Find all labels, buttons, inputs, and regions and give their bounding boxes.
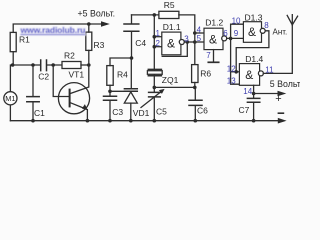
resistor R6	[192, 65, 198, 83]
node emitter rail	[86, 119, 90, 123]
resistor R3	[86, 32, 92, 50]
capacitor C2	[41, 60, 47, 71]
node C1 bottom rail	[31, 119, 35, 123]
svg-text:&: &	[167, 36, 175, 50]
svg-text:C4: C4	[135, 38, 146, 48]
svg-text:11: 11	[265, 65, 274, 74]
wire pin11 to antenna	[263, 25, 292, 74]
wire R3 bottom	[88, 50, 90, 65]
pin12 stub	[231, 71, 240, 73]
resistor R1	[10, 32, 16, 51]
svg-text:R1: R1	[19, 35, 30, 45]
svg-text:5: 5	[197, 34, 202, 43]
node top rail / R3 junction	[87, 22, 91, 26]
wire pin8 wrap to pin12	[236, 31, 269, 72]
wire pin3	[184, 41, 195, 43]
svg-text:5 Вольт.: 5 Вольт.	[270, 79, 300, 89]
wire R4 top	[110, 58, 132, 66]
svg-text:D1.3: D1.3	[245, 13, 263, 23]
pin7 ground	[213, 50, 215, 62]
microphone M1	[9, 65, 11, 121]
svg-text:6: 6	[223, 29, 228, 38]
capacitor C7	[247, 98, 259, 102]
capacitor C3	[109, 91, 111, 120]
svg-text:D1.2: D1.2	[205, 18, 223, 28]
svg-text:9: 9	[234, 29, 239, 38]
wire C2 to R2	[47, 64, 62, 66]
capacitor C6	[194, 87, 196, 120]
svg-text:13: 13	[227, 77, 236, 86]
svg-text:3: 3	[184, 34, 189, 43]
wire R3 top	[88, 24, 90, 32]
capacitor C4	[131, 15, 133, 58]
svg-text:10: 10	[232, 17, 241, 26]
capacitor C1	[32, 65, 34, 121]
svg-text:C1: C1	[34, 108, 45, 118]
node collector	[87, 63, 91, 67]
svg-text:C7: C7	[239, 105, 250, 115]
minus sign	[278, 112, 283, 114]
wire pin6 to pin9	[227, 37, 244, 39]
wire node ZQ1/R6 bottom row	[154, 86, 195, 88]
wire C4 top to R5	[132, 14, 159, 16]
pin5 stub	[195, 41, 204, 43]
svg-text:+: +	[275, 93, 281, 105]
wire collector	[71, 65, 89, 93]
gate D1.2	[204, 28, 223, 49]
node R1/M1/signal	[11, 63, 15, 67]
gate D1.4	[239, 64, 259, 86]
node base junction	[51, 63, 55, 67]
svg-text:&: &	[248, 25, 256, 39]
varicap VD1	[130, 58, 132, 88]
svg-text:VT1: VT1	[69, 70, 85, 80]
crystal ZQ1	[147, 71, 162, 75]
svg-text:R6: R6	[200, 69, 211, 79]
svg-text:R2: R2	[64, 50, 75, 60]
wire R5 right	[179, 15, 195, 65]
svg-text:D1.1: D1.1	[163, 22, 181, 32]
node-in vertical (D1.1 inputs)	[153, 15, 155, 88]
wire R4 bottom	[109, 85, 111, 91]
svg-text:C5: C5	[156, 107, 167, 117]
svg-text:ZQ1: ZQ1	[162, 75, 179, 85]
svg-text:C6: C6	[197, 106, 208, 116]
svg-text:C3: C3	[112, 107, 123, 117]
svg-text:R3: R3	[94, 40, 105, 50]
resistor R4	[107, 66, 113, 86]
+5V arrow	[101, 21, 110, 27]
svg-text:www.radiolub.ru: www.radiolub.ru	[20, 25, 86, 35]
wire bottom rail	[10, 120, 277, 122]
wire pin10 / D1.4 inputs vertical	[231, 24, 244, 84]
node R5 left	[153, 13, 157, 17]
wire base drop	[53, 65, 68, 97]
svg-text:C2: C2	[38, 72, 49, 82]
svg-text:7: 7	[206, 51, 211, 60]
svg-text:M1: M1	[5, 94, 15, 103]
svg-text:VD1: VD1	[133, 108, 150, 118]
pin4 stub	[195, 32, 204, 34]
svg-text:4: 4	[197, 25, 202, 34]
svg-text:12: 12	[227, 65, 236, 74]
wire emitter	[71, 103, 88, 121]
resistor R2	[62, 62, 81, 69]
node C1 top	[31, 63, 35, 67]
gate D1.3	[243, 22, 261, 43]
svg-text:1: 1	[155, 29, 160, 38]
wire +5V top rail	[13, 24, 101, 32]
wire pin14 +5V	[253, 85, 255, 98]
svg-text:&: &	[245, 68, 253, 82]
wire pin3 feedback U	[162, 42, 187, 56]
svg-text:14: 14	[243, 87, 252, 96]
wire R1 bottom	[12, 52, 14, 65]
svg-text:+5 Вольт.: +5 Вольт.	[78, 9, 116, 19]
svg-text:R5: R5	[164, 0, 175, 10]
pin 1 stub	[154, 36, 162, 38]
pin 2 stub	[154, 46, 162, 48]
antenna	[287, 15, 297, 25]
wire signal row	[13, 64, 40, 66]
svg-text:D1.4: D1.4	[245, 54, 263, 64]
node R4/C3/VD1	[108, 90, 112, 94]
transistor VT1	[58, 83, 89, 114]
svg-text:Ант.: Ант.	[273, 28, 288, 37]
wire R2 right	[81, 64, 89, 66]
capacitor C5 (trimmer)	[153, 86, 157, 90]
resistor R5	[159, 11, 179, 18]
wire node to VD1	[110, 90, 124, 92]
svg-text:&: &	[209, 32, 217, 46]
svg-text:R4: R4	[117, 70, 128, 80]
node C4 bottom	[130, 56, 134, 60]
svg-text:2: 2	[155, 39, 160, 48]
svg-text:8: 8	[264, 21, 269, 30]
gate D1.1	[162, 32, 181, 55]
